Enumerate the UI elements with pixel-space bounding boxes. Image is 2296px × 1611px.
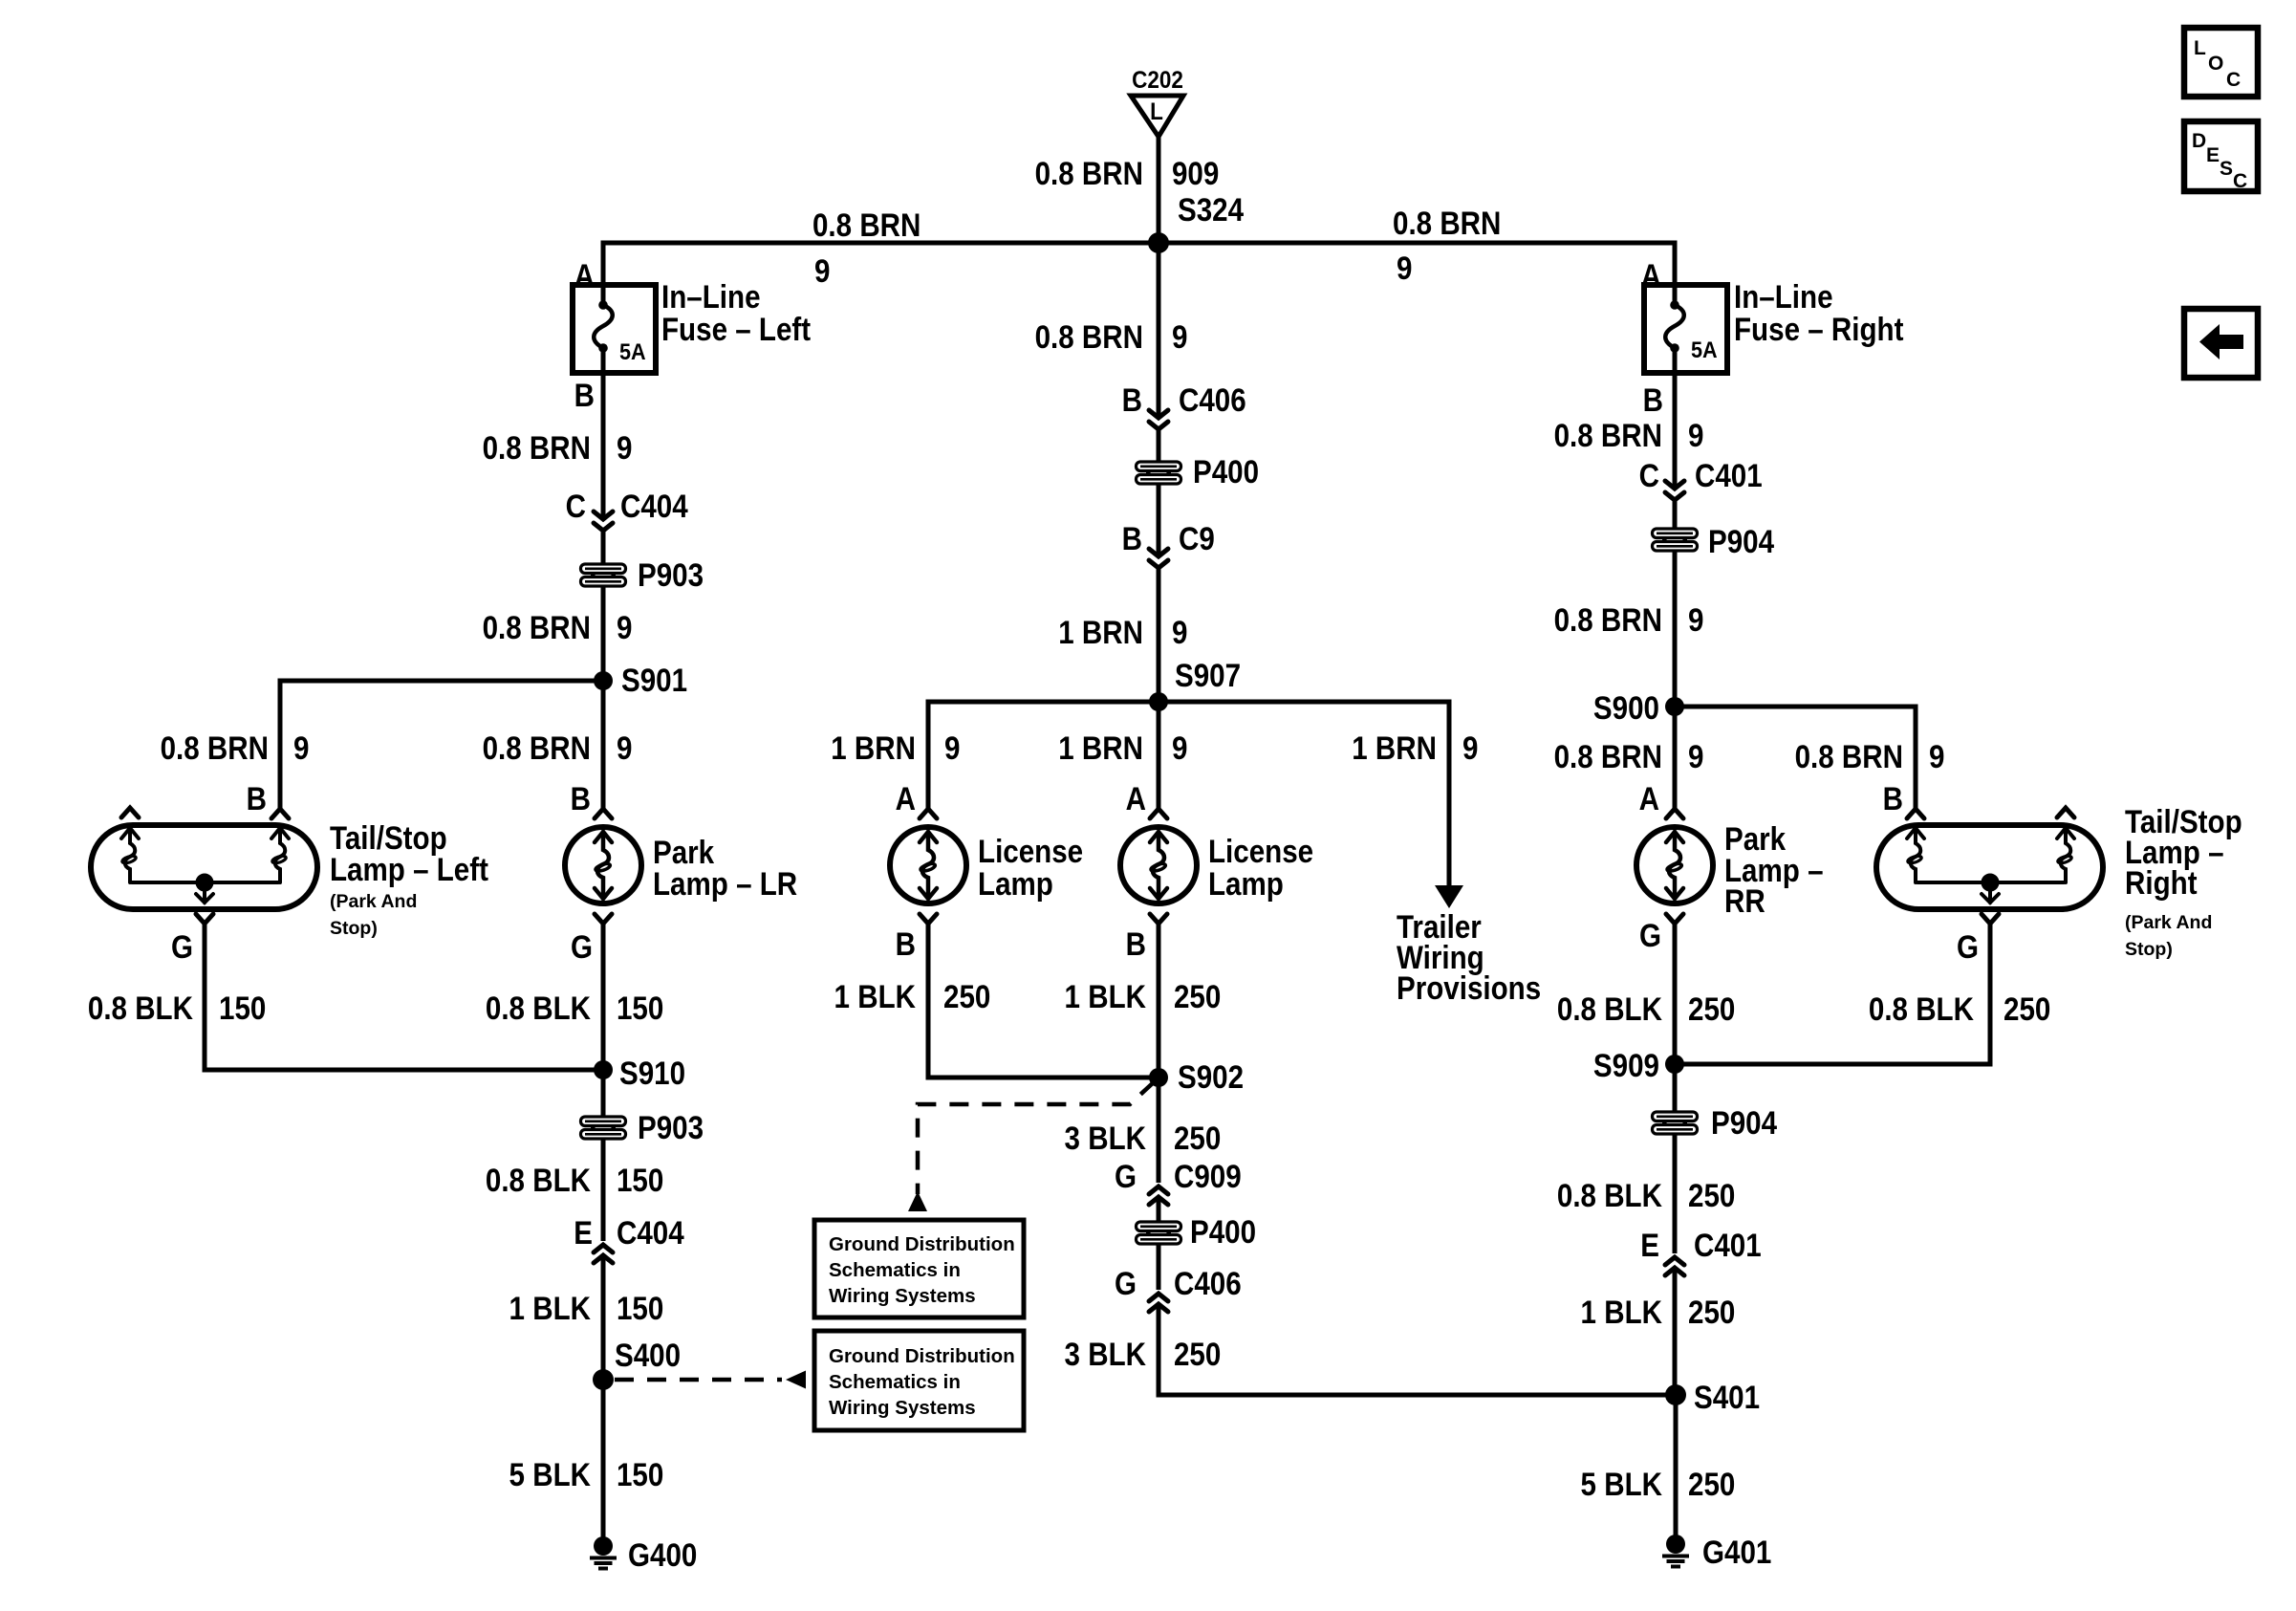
svg-text:1 BRN: 1 BRN bbox=[1058, 614, 1143, 650]
wire P400 to C406 G bbox=[1157, 1244, 1161, 1290]
svg-text:Fuse – Right: Fuse – Right bbox=[1734, 311, 1904, 347]
splice S900 bbox=[1665, 697, 1684, 716]
arrowhead reference (left) bbox=[786, 1371, 806, 1389]
svg-text:G: G bbox=[1639, 917, 1661, 953]
svg-text:Wiring Systems: Wiring Systems bbox=[829, 1397, 976, 1419]
svg-text:C404: C404 bbox=[620, 488, 688, 524]
svg-text:Provisions: Provisions bbox=[1397, 969, 1541, 1006]
svg-text:150: 150 bbox=[617, 1290, 663, 1326]
svg-text:E: E bbox=[2206, 144, 2220, 166]
svg-text:Right: Right bbox=[2125, 864, 2198, 901]
terminal chevron unconnected (tail lamp right) bbox=[2057, 808, 2074, 817]
svg-text:C: C bbox=[1639, 457, 1659, 493]
svg-text:0.8 BRN: 0.8 BRN bbox=[1795, 738, 1903, 774]
svg-text:B: B bbox=[1643, 381, 1663, 418]
svg-text:909: 909 bbox=[1172, 155, 1219, 191]
svg-text:G: G bbox=[571, 928, 593, 965]
svg-text:S324: S324 bbox=[1178, 191, 1244, 228]
svg-text:250: 250 bbox=[1174, 1336, 1221, 1372]
splice S909 bbox=[1665, 1055, 1684, 1074]
svg-text:1 BLK: 1 BLK bbox=[834, 978, 916, 1014]
fuse F-left element bbox=[598, 300, 608, 310]
connector C9 (down) bbox=[1149, 549, 1168, 568]
svg-text:250: 250 bbox=[1688, 1466, 1735, 1502]
svg-text:0.8 BRN: 0.8 BRN bbox=[1035, 155, 1143, 191]
terminal A chevron (license lamp 2) bbox=[1150, 809, 1167, 818]
terminal B chevron (tail lamp right) bbox=[1907, 809, 1924, 818]
splice S324 bbox=[1148, 232, 1169, 253]
svg-text:Wiring Systems: Wiring Systems bbox=[829, 1285, 976, 1307]
svg-text:Fuse – Left: Fuse – Left bbox=[661, 311, 811, 347]
terminal B chevron (license lamp 1) bbox=[920, 914, 937, 924]
svg-text:S907: S907 bbox=[1175, 657, 1241, 693]
terminal chevron unconnected (tail lamp left) bbox=[121, 808, 139, 817]
wire P903 to C404 E bbox=[601, 1139, 606, 1241]
wire park RR G to S909 bbox=[1673, 924, 1678, 1064]
svg-text:B: B bbox=[1122, 520, 1142, 556]
svg-text:Schematics in: Schematics in bbox=[829, 1371, 961, 1393]
svg-text:9: 9 bbox=[1462, 729, 1478, 766]
grommet P903 (lower) bbox=[579, 1116, 627, 1140]
svg-text:Ground Distribution: Ground Distribution bbox=[829, 1345, 1015, 1367]
wire tail right G to S909 bbox=[1675, 924, 1990, 1064]
svg-text:0.8 BRN: 0.8 BRN bbox=[1554, 601, 1662, 638]
svg-text:In–Line: In–Line bbox=[1734, 278, 1833, 315]
ground G400 bbox=[590, 1536, 617, 1569]
svg-text:9: 9 bbox=[617, 729, 632, 766]
terminal A chevron (park lamp RR) bbox=[1666, 809, 1683, 818]
wire license lamp 1 B to S902 bbox=[928, 924, 1159, 1078]
wire P904 to C401 E bbox=[1673, 1134, 1678, 1253]
svg-text:250: 250 bbox=[1174, 978, 1221, 1014]
svg-text:3 BLK: 3 BLK bbox=[1065, 1120, 1146, 1156]
svg-text:B: B bbox=[574, 377, 595, 413]
wire license lamp 2 B to S902 bbox=[1157, 924, 1161, 1078]
svg-text:5A: 5A bbox=[1691, 337, 1718, 362]
svg-text:C406: C406 bbox=[1174, 1265, 1242, 1301]
svg-text:(Park And: (Park And bbox=[2125, 912, 2212, 933]
wire C9 to S907 bbox=[1157, 568, 1161, 702]
svg-text:9: 9 bbox=[1688, 738, 1703, 774]
svg-text:S902: S902 bbox=[1178, 1058, 1244, 1095]
wire S900 to park lamp RR A bbox=[1673, 707, 1678, 809]
svg-text:250: 250 bbox=[1174, 1120, 1221, 1156]
grommet P400 bbox=[1135, 461, 1182, 485]
svg-text:E: E bbox=[1640, 1227, 1659, 1263]
terminal G chevron (park lamp LR) bbox=[595, 914, 612, 924]
svg-text:C401: C401 bbox=[1694, 1227, 1762, 1263]
box back arrow bbox=[2184, 309, 2258, 378]
connector C401 (down) bbox=[1665, 481, 1684, 500]
svg-text:0.8 BRN: 0.8 BRN bbox=[483, 609, 591, 645]
svg-text:B: B bbox=[1126, 925, 1146, 962]
svg-text:D: D bbox=[2192, 130, 2206, 152]
svg-text:0.8 BLK: 0.8 BLK bbox=[1869, 991, 1974, 1027]
wire bus S324 left to fuse A bbox=[603, 243, 1159, 305]
wire C404 to P903 bbox=[601, 531, 606, 566]
lamp Tail/Stop Left body bbox=[91, 825, 317, 909]
svg-text:Lamp: Lamp bbox=[1208, 865, 1284, 902]
svg-text:0.8 BRN: 0.8 BRN bbox=[1393, 205, 1501, 241]
splice S907 bbox=[1149, 692, 1168, 711]
wire tail left G to S910 bbox=[205, 924, 603, 1070]
svg-text:1 BLK: 1 BLK bbox=[1581, 1294, 1662, 1330]
svg-text:P904: P904 bbox=[1708, 523, 1774, 559]
svg-text:O: O bbox=[2208, 53, 2223, 75]
svg-text:B: B bbox=[1883, 780, 1903, 816]
terminal G chevron (park lamp RR) bbox=[1666, 914, 1683, 924]
svg-text:B: B bbox=[571, 780, 591, 816]
wire S907 left to license lamp A bbox=[928, 702, 1159, 809]
splice S400 bbox=[593, 1369, 614, 1390]
svg-text:In–Line: In–Line bbox=[661, 278, 761, 315]
svg-text:0.8 BLK: 0.8 BLK bbox=[1557, 991, 1662, 1027]
svg-text:150: 150 bbox=[617, 1162, 663, 1198]
svg-text:9: 9 bbox=[814, 252, 830, 289]
svg-text:G: G bbox=[1957, 928, 1979, 965]
svg-text:1 BRN: 1 BRN bbox=[1352, 729, 1437, 766]
ground G401 bbox=[1662, 1535, 1689, 1567]
svg-text:250: 250 bbox=[1688, 991, 1735, 1027]
wire S910 to P903 bbox=[601, 1070, 606, 1117]
connector C909 (up) bbox=[1149, 1186, 1168, 1205]
svg-text:P903: P903 bbox=[638, 556, 704, 593]
svg-text:9: 9 bbox=[1929, 738, 1944, 774]
svg-text:C202: C202 bbox=[1132, 67, 1183, 94]
svg-text:C909: C909 bbox=[1174, 1158, 1242, 1194]
fuse F-right box bbox=[1644, 285, 1727, 373]
svg-text:A: A bbox=[896, 780, 916, 816]
svg-text:E: E bbox=[574, 1214, 593, 1251]
svg-text:250: 250 bbox=[1688, 1294, 1735, 1330]
svg-text:B: B bbox=[896, 925, 916, 962]
svg-text:0.8 BLK: 0.8 BLK bbox=[486, 1162, 591, 1198]
svg-text:B: B bbox=[1122, 381, 1142, 418]
wire bus S324 right to fuse A bbox=[1159, 243, 1675, 305]
svg-text:250: 250 bbox=[1688, 1177, 1735, 1213]
svg-text:150: 150 bbox=[617, 990, 663, 1026]
connector C401 E (up) bbox=[1665, 1257, 1684, 1275]
connector C406 G (up) bbox=[1149, 1294, 1168, 1312]
svg-text:S900: S900 bbox=[1593, 689, 1659, 726]
wire C404 E to S400 bbox=[601, 1255, 606, 1380]
svg-text:A: A bbox=[1639, 780, 1659, 816]
svg-text:A: A bbox=[574, 257, 595, 294]
svg-text:Stop): Stop) bbox=[330, 918, 378, 939]
svg-text:250: 250 bbox=[943, 978, 990, 1014]
arrowhead reference (up) bbox=[908, 1191, 927, 1211]
svg-text:G400: G400 bbox=[628, 1536, 697, 1573]
wire C909 to P400 bbox=[1157, 1197, 1161, 1223]
svg-text:L: L bbox=[1150, 98, 1163, 125]
svg-text:S910: S910 bbox=[619, 1055, 685, 1091]
wire P903 to S901 bbox=[601, 586, 606, 681]
svg-text:P400: P400 bbox=[1190, 1213, 1256, 1250]
wire C406 G to S401 bbox=[1159, 1304, 1676, 1395]
svg-text:0.8 BRN: 0.8 BRN bbox=[812, 207, 921, 243]
svg-text:1 BLK: 1 BLK bbox=[1065, 978, 1146, 1014]
fuse F-right element bbox=[1670, 300, 1679, 310]
wire S901 branch to tail lamp left B bbox=[280, 681, 603, 809]
dashed reference S902 to box bbox=[918, 1081, 1155, 1194]
grommet P904 bbox=[1651, 528, 1699, 552]
svg-text:9: 9 bbox=[1172, 729, 1187, 766]
svg-text:0.8 BLK: 0.8 BLK bbox=[88, 990, 193, 1026]
splice S902 bbox=[1149, 1068, 1168, 1087]
svg-text:3 BLK: 3 BLK bbox=[1065, 1336, 1146, 1372]
svg-text:G: G bbox=[1115, 1158, 1137, 1194]
box DESC bbox=[2184, 121, 2258, 191]
connector C404 (down) bbox=[594, 512, 613, 531]
svg-text:P904: P904 bbox=[1711, 1104, 1777, 1141]
svg-text:150: 150 bbox=[617, 1456, 663, 1492]
lamp License Lamp 2 bbox=[1120, 827, 1197, 903]
wire park LR G to S910 bbox=[601, 924, 606, 1070]
svg-text:0.8 BRN: 0.8 BRN bbox=[483, 729, 591, 766]
terminal B chevron (license lamp 2) bbox=[1150, 914, 1167, 924]
svg-text:S: S bbox=[2220, 158, 2233, 180]
svg-text:C404: C404 bbox=[617, 1214, 684, 1251]
svg-text:C: C bbox=[2226, 69, 2241, 91]
svg-text:Lamp – LR: Lamp – LR bbox=[653, 865, 797, 902]
grommet P400 (lower) bbox=[1135, 1221, 1182, 1245]
wire S907 to license lamp 2 A bbox=[1157, 702, 1161, 809]
svg-text:1 BRN: 1 BRN bbox=[831, 729, 916, 766]
svg-text:A: A bbox=[1126, 780, 1146, 816]
splice S901 bbox=[594, 671, 613, 690]
svg-text:License: License bbox=[1208, 833, 1313, 869]
svg-text:150: 150 bbox=[219, 990, 266, 1026]
svg-text:0.8 BLK: 0.8 BLK bbox=[1557, 1177, 1662, 1213]
svg-text:G401: G401 bbox=[1702, 1534, 1771, 1570]
grommet P903 bbox=[579, 563, 627, 587]
lamp Tail/Stop Right body bbox=[1876, 825, 2103, 909]
svg-text:9: 9 bbox=[1172, 614, 1187, 650]
svg-text:B: B bbox=[247, 780, 267, 816]
box Ground Distribution 2 bbox=[814, 1331, 1024, 1430]
splice S401 bbox=[1665, 1384, 1686, 1405]
svg-text:9: 9 bbox=[617, 609, 632, 645]
lamp License Lamp 1 bbox=[890, 827, 966, 903]
wire C401 E to S401 bbox=[1673, 1268, 1678, 1395]
svg-text:(Park And: (Park And bbox=[330, 891, 417, 912]
svg-text:Lamp: Lamp bbox=[978, 865, 1053, 902]
svg-text:Lamp – Left: Lamp – Left bbox=[330, 851, 488, 887]
wire right fuse B to C401 bbox=[1673, 348, 1678, 489]
terminal B chevron (park lamp LR) bbox=[595, 809, 612, 818]
terminal B chevron (tail lamp left) bbox=[271, 809, 289, 818]
svg-text:9: 9 bbox=[1172, 318, 1187, 355]
svg-text:C401: C401 bbox=[1695, 457, 1763, 493]
wire S909 to P904 bbox=[1673, 1064, 1678, 1113]
svg-text:0.8 BRN: 0.8 BRN bbox=[483, 429, 591, 466]
svg-text:C: C bbox=[566, 488, 586, 524]
svg-text:License: License bbox=[978, 833, 1083, 869]
svg-text:9: 9 bbox=[1397, 250, 1412, 286]
svg-text:9: 9 bbox=[944, 729, 960, 766]
svg-text:1 BLK: 1 BLK bbox=[509, 1290, 591, 1326]
connector C406 (down) bbox=[1149, 410, 1168, 429]
svg-text:S401: S401 bbox=[1694, 1379, 1760, 1415]
wire C202 to S324 bbox=[1157, 137, 1161, 243]
arrowhead trailer wiring bbox=[1435, 885, 1463, 908]
dashed reference S400 to box bbox=[615, 1378, 782, 1382]
svg-text:P903: P903 bbox=[638, 1109, 704, 1145]
svg-text:9: 9 bbox=[293, 729, 309, 766]
grommet P904 (lower) bbox=[1651, 1111, 1699, 1135]
svg-text:0.8 BLK: 0.8 BLK bbox=[486, 990, 591, 1026]
svg-text:5A: 5A bbox=[619, 338, 646, 364]
svg-text:L: L bbox=[2194, 37, 2206, 59]
svg-text:Ground Distribution: Ground Distribution bbox=[829, 1233, 1015, 1255]
svg-text:9: 9 bbox=[617, 429, 632, 466]
svg-text:G: G bbox=[171, 928, 193, 965]
fuse F-left box bbox=[573, 285, 656, 373]
svg-text:250: 250 bbox=[2004, 991, 2050, 1027]
box Ground Distribution 1 bbox=[814, 1220, 1024, 1317]
wire S900 branch to tail lamp right B bbox=[1675, 707, 1916, 809]
svg-text:5 BLK: 5 BLK bbox=[509, 1456, 591, 1492]
wire P904 to S900 bbox=[1673, 551, 1678, 707]
svg-text:S400: S400 bbox=[615, 1337, 681, 1373]
svg-text:5 BLK: 5 BLK bbox=[1581, 1466, 1662, 1502]
wire S400 to G400 bbox=[601, 1380, 606, 1537]
lamp Park Lamp RR bbox=[1636, 827, 1713, 903]
lamp Park Lamp LR bbox=[565, 827, 641, 903]
wire S902 to C909 bbox=[1157, 1078, 1161, 1183]
svg-text:G: G bbox=[1115, 1265, 1137, 1301]
svg-text:S901: S901 bbox=[621, 662, 687, 698]
svg-text:0.8 BRN: 0.8 BRN bbox=[1554, 417, 1662, 453]
svg-text:9: 9 bbox=[1688, 417, 1703, 453]
svg-text:0.8 BRN: 0.8 BRN bbox=[161, 729, 269, 766]
connector C202 triangle bbox=[1131, 96, 1183, 137]
wire left fuse B to C404 bbox=[601, 348, 606, 519]
svg-text:P400: P400 bbox=[1193, 453, 1259, 490]
svg-text:0.8 BRN: 0.8 BRN bbox=[1035, 318, 1143, 355]
wire C401 to P904 bbox=[1673, 500, 1678, 530]
wire S324 to C406 bbox=[1157, 243, 1161, 418]
terminal G chevron (tail lamp right) bbox=[1982, 914, 1999, 924]
svg-text:Stop): Stop) bbox=[2125, 939, 2173, 960]
svg-text:9: 9 bbox=[1688, 601, 1703, 638]
wire C406 to P400 bbox=[1157, 429, 1161, 463]
wire P400 to C9 bbox=[1157, 484, 1161, 556]
terminal A chevron (license lamp 1) bbox=[920, 809, 937, 818]
connector C404 E (up) bbox=[594, 1245, 613, 1263]
wire S901 to park lamp LR B bbox=[601, 681, 606, 809]
splice S910 bbox=[594, 1060, 613, 1079]
svg-text:C: C bbox=[2233, 170, 2247, 192]
terminal G chevron (tail lamp left) bbox=[196, 914, 213, 924]
svg-text:RR: RR bbox=[1724, 882, 1765, 919]
svg-text:C9: C9 bbox=[1179, 520, 1215, 556]
svg-text:1 BRN: 1 BRN bbox=[1058, 729, 1143, 766]
svg-text:Schematics in: Schematics in bbox=[829, 1259, 961, 1281]
box LOC bbox=[2184, 28, 2258, 97]
wire S401 to G401 bbox=[1674, 1395, 1679, 1535]
wire S907 right to trailer provisions bbox=[1159, 702, 1449, 885]
svg-text:C406: C406 bbox=[1179, 381, 1246, 418]
svg-text:0.8 BRN: 0.8 BRN bbox=[1554, 738, 1662, 774]
svg-text:S909: S909 bbox=[1593, 1047, 1659, 1083]
